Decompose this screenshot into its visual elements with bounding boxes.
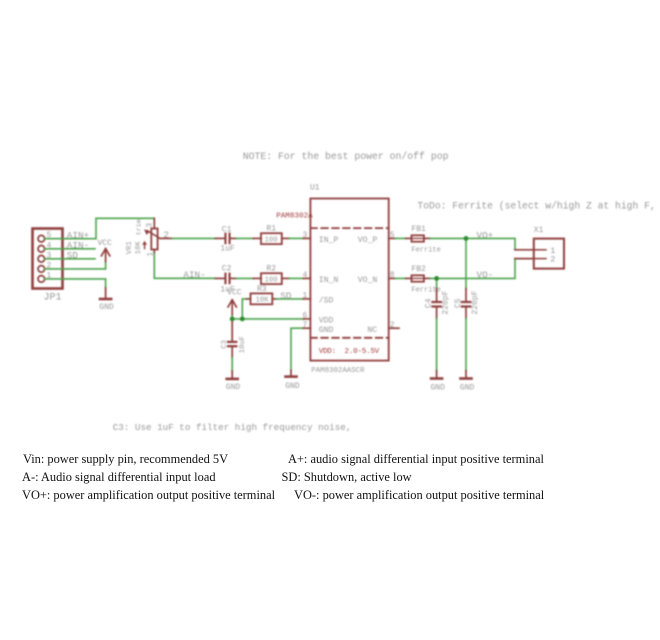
- svg-text:GND: GND: [431, 383, 446, 392]
- svg-text:ToDo: Ferrite (select w/high Z: ToDo: Ferrite (select w/high Z at high F…: [417, 200, 655, 211]
- svg-text:10K: 10K: [135, 241, 143, 255]
- svg-text:8: 8: [390, 271, 395, 280]
- svg-text:100: 100: [265, 277, 278, 285]
- svg-text:3: 3: [303, 231, 308, 240]
- svg-text:VO_P: VO_P: [358, 236, 378, 245]
- svg-text:AIN-: AIN-: [183, 270, 205, 281]
- svg-text:C3: Use 1uF to filter high fre: C3: Use 1uF to filter high frequency noi…: [113, 422, 352, 433]
- svg-text:10K: 10K: [256, 297, 270, 305]
- svg-text:VO_N: VO_N: [358, 276, 378, 285]
- svg-text:VDD: 2.0-5.5V: VDD: 2.0-5.5V: [319, 348, 380, 356]
- svg-text:220pF: 220pF: [471, 290, 480, 314]
- svg-text:GND: GND: [319, 326, 334, 335]
- svg-text:1uF: 1uF: [220, 245, 235, 254]
- svg-text:GND: GND: [99, 303, 114, 312]
- svg-text:PAM8302AASCR: PAM8302AASCR: [311, 367, 365, 375]
- svg-text:1: 1: [47, 271, 52, 280]
- svg-text:100: 100: [265, 237, 278, 245]
- svg-text:6: 6: [303, 312, 308, 321]
- svg-text:JP1: JP1: [44, 292, 62, 303]
- svg-text:VDD: VDD: [319, 316, 334, 325]
- svg-text:FB2: FB2: [411, 265, 426, 274]
- svg-text:C5: C5: [454, 298, 463, 308]
- svg-text:SD: SD: [67, 250, 79, 261]
- svg-text:C2: C2: [222, 265, 232, 274]
- svg-text:GND: GND: [460, 383, 475, 392]
- svg-text:PAM8302A: PAM8302A: [276, 213, 313, 221]
- svg-text:X1: X1: [534, 226, 544, 235]
- svg-text:Ferrite: Ferrite: [411, 287, 440, 295]
- svg-text:VCC: VCC: [227, 289, 242, 298]
- svg-text:10uF: 10uF: [239, 336, 247, 353]
- svg-text:trim: trim: [136, 219, 143, 235]
- svg-text:R2: R2: [266, 265, 276, 274]
- svg-text:VCC: VCC: [98, 239, 113, 248]
- svg-text:Ferrite: Ferrite: [411, 247, 440, 255]
- svg-text:2: 2: [550, 255, 555, 265]
- svg-text:2: 2: [390, 321, 395, 330]
- svg-text:GND: GND: [285, 382, 300, 391]
- svg-text:1: 1: [146, 252, 155, 257]
- svg-text:NC: NC: [367, 326, 377, 335]
- svg-text:IN_P: IN_P: [319, 236, 339, 245]
- svg-text:2: 2: [47, 261, 52, 270]
- svg-text:VR1: VR1: [126, 241, 134, 254]
- svg-text:FB1: FB1: [411, 225, 426, 234]
- svg-text:4: 4: [47, 241, 52, 250]
- svg-text:R1: R1: [266, 225, 276, 234]
- svg-text:3: 3: [47, 251, 52, 260]
- svg-text:NOTE: For the best power on/of: NOTE: For the best power on/off pop: [243, 151, 449, 162]
- svg-text:C4: C4: [425, 298, 434, 308]
- svg-text:U1: U1: [310, 184, 320, 193]
- svg-text:220pF: 220pF: [442, 290, 451, 314]
- svg-text:IN_N: IN_N: [319, 276, 339, 285]
- svg-text:5: 5: [390, 231, 395, 240]
- svg-text:C1: C1: [222, 225, 232, 234]
- svg-text:R3: R3: [257, 285, 267, 294]
- svg-text:GND: GND: [226, 383, 241, 392]
- svg-text:2: 2: [163, 230, 169, 241]
- svg-text:1: 1: [303, 292, 308, 301]
- svg-text:/SD: /SD: [319, 296, 334, 306]
- svg-text:SD: SD: [280, 290, 292, 301]
- svg-text:5: 5: [47, 231, 52, 240]
- svg-text:3: 3: [146, 223, 155, 228]
- svg-text:C3: C3: [221, 340, 229, 349]
- svg-text:7: 7: [303, 321, 308, 330]
- svg-text:VO+: VO+: [477, 230, 494, 241]
- svg-text:4: 4: [303, 271, 308, 280]
- svg-text:VO-: VO-: [477, 270, 494, 281]
